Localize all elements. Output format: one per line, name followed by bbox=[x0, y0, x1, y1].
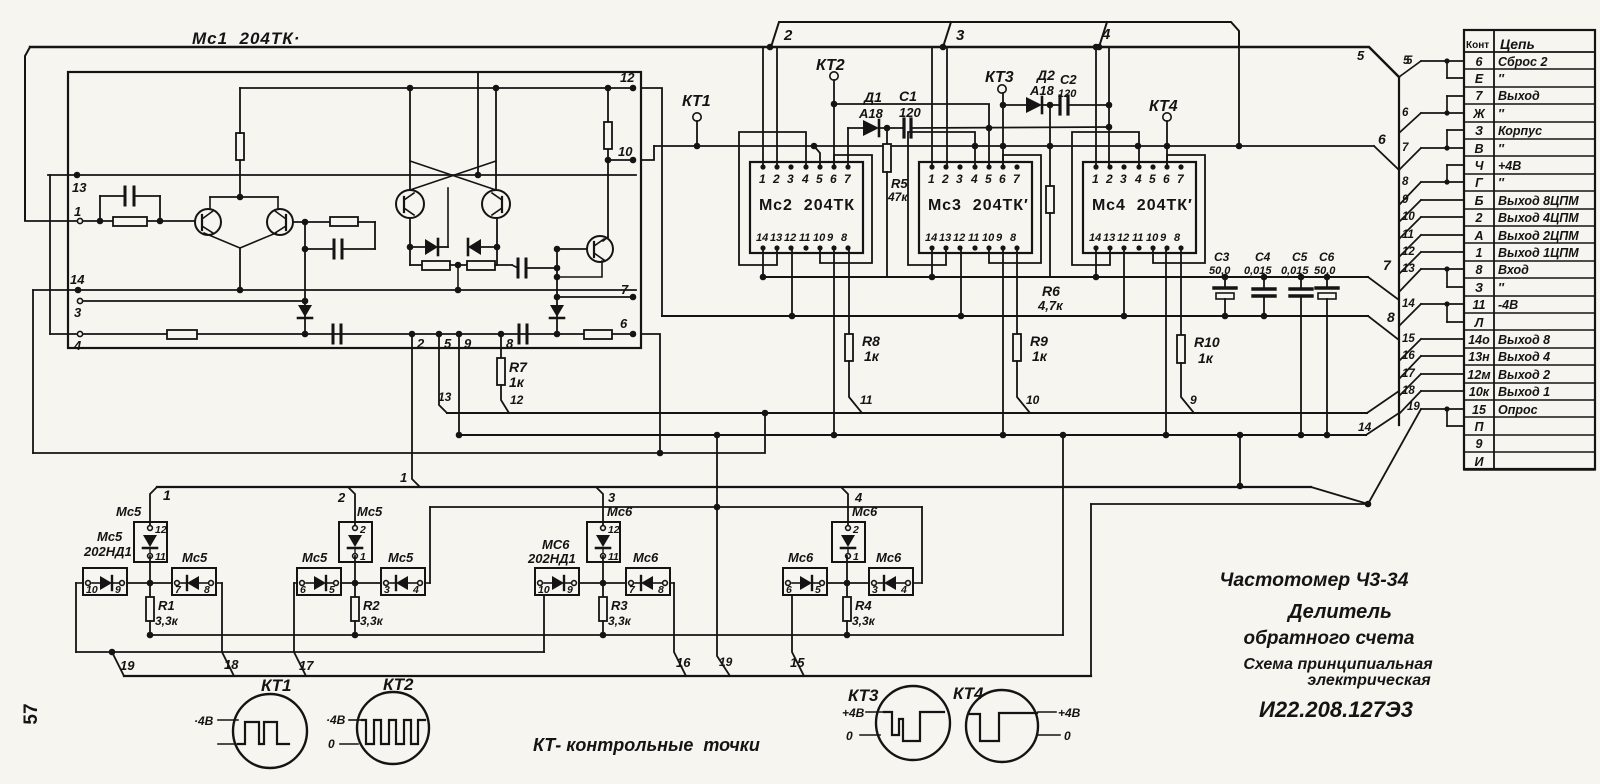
wire L1 left to rail B bbox=[76, 582, 83, 584]
connector row Г &#8243; bbox=[1464, 190, 1595, 192]
connector row 12м Выход 2 bbox=[1464, 382, 1595, 384]
connector row 6 Сброс 2 bbox=[1464, 68, 1595, 70]
connector row 11 -4В bbox=[1464, 312, 1595, 314]
svg-text:0: 0 bbox=[328, 737, 335, 751]
wire rail R y635 bbox=[150, 634, 1063, 636]
svg-text:7: 7 bbox=[1402, 142, 1409, 154]
svg-text:КТ1: КТ1 bbox=[682, 93, 711, 110]
connector row 2 Выход 4ЦПМ bbox=[1464, 225, 1595, 227]
svg-text:R7: R7 bbox=[509, 359, 528, 375]
svg-text:Ч: Ч bbox=[1475, 159, 1485, 173]
svg-text:Ж: Ж bbox=[1472, 107, 1486, 121]
wire tap 11 to row bbox=[1399, 235, 1421, 257]
svg-text:47к: 47к bbox=[887, 190, 908, 204]
Мс2 pin 10 bbox=[817, 245, 822, 250]
IC Mc1 outline box bbox=[68, 72, 641, 348]
wire lower bus1 net1 bbox=[157, 486, 1311, 488]
resistor R3 bbox=[602, 583, 604, 597]
wire bundle trunk vertical bbox=[1398, 77, 1400, 425]
svg-text:1: 1 bbox=[163, 487, 171, 503]
svg-text:3: 3 bbox=[956, 27, 965, 44]
wire vertical H1 to Mc4 pin1 bbox=[1095, 47, 1097, 167]
connector table frame bbox=[1464, 30, 1595, 469]
svg-text:Мс6: Мс6 bbox=[788, 550, 814, 565]
svg-text:3: 3 bbox=[74, 305, 82, 320]
svg-text:4: 4 bbox=[900, 584, 907, 596]
svg-text:+4В: +4В bbox=[1498, 159, 1521, 173]
svg-text:обратного счета: обратного счета bbox=[1243, 628, 1414, 649]
Мс3 pin 10 bbox=[986, 245, 991, 250]
wire tap 6 hook bbox=[1444, 110, 1449, 115]
svg-text:11: 11 bbox=[968, 232, 979, 244]
node pin5 bottom bbox=[436, 331, 443, 338]
svg-text:3: 3 bbox=[384, 584, 390, 596]
IC Мс2 body bbox=[750, 162, 863, 253]
wire left vertical x33 bbox=[32, 290, 34, 453]
svg-text:2: 2 bbox=[852, 524, 859, 536]
wire column C diode to row bbox=[602, 556, 604, 583]
wire T5 emitter down bbox=[496, 218, 498, 265]
Мс4 pin 14 bbox=[1093, 245, 1098, 250]
svg-text:6: 6 bbox=[1378, 131, 1386, 147]
svg-text:12: 12 bbox=[155, 524, 167, 536]
svg-text:15: 15 bbox=[790, 655, 805, 670]
svg-text:Мс6: Мс6 bbox=[607, 504, 633, 519]
svg-text:1: 1 bbox=[759, 172, 766, 186]
wire ground dive to Mc2 pin5 bbox=[814, 146, 820, 167]
svg-text:18: 18 bbox=[224, 657, 239, 672]
Мс4 pin 2 bbox=[1107, 164, 1112, 169]
svg-text:Мс4 204ТК′: Мс4 204ТК′ bbox=[1092, 197, 1193, 214]
svg-text:1к: 1к bbox=[1198, 350, 1214, 366]
svg-text:1: 1 bbox=[928, 172, 935, 186]
connector row З Корпус bbox=[1464, 138, 1595, 140]
svg-text:9: 9 bbox=[1402, 194, 1409, 206]
svg-text:2: 2 bbox=[941, 172, 949, 186]
svg-text:4: 4 bbox=[854, 490, 863, 505]
wire Mc3 pin12 to bus2 bbox=[960, 248, 962, 316]
svg-text:″: ″ bbox=[1498, 107, 1505, 121]
resistor Rg bbox=[467, 261, 495, 270]
wire tap 14 hook bbox=[1444, 301, 1449, 306]
Мс4 pin 6 bbox=[1164, 164, 1169, 169]
svg-text:11: 11 bbox=[1132, 232, 1143, 244]
svg-text:6: 6 bbox=[1402, 107, 1409, 119]
wire left drop from H1 to pin1 line bbox=[25, 47, 30, 220]
wire left vertical x50 pin13 to pin4 bbox=[49, 175, 51, 334]
wire tap 8 hook bbox=[1444, 179, 1449, 184]
svg-text:11: 11 bbox=[1473, 298, 1486, 312]
wire tap 10 to row bbox=[1399, 217, 1421, 239]
svg-text:5: 5 bbox=[444, 336, 452, 351]
diode box Mc column x848 bbox=[832, 522, 865, 562]
svg-text:9: 9 bbox=[827, 232, 834, 244]
svg-text:R4: R4 bbox=[855, 598, 872, 613]
wire dive 19 left bbox=[112, 652, 124, 676]
diode array box pins 3 4 bbox=[869, 568, 913, 595]
svg-text:1к: 1к bbox=[1032, 348, 1048, 364]
resistor R2 bbox=[354, 583, 356, 597]
connector row 9 bbox=[1464, 451, 1595, 453]
wire Mc3 pin9 to bus4 bbox=[1002, 248, 1004, 435]
svg-text:Л: Л bbox=[1474, 316, 1484, 330]
diode array box pins 6 5 bbox=[297, 568, 341, 595]
svg-text:3: 3 bbox=[787, 172, 794, 186]
svg-text:4: 4 bbox=[801, 172, 809, 186]
wire lower bus1 hook to column B bbox=[348, 487, 355, 528]
svg-text:Мс5: Мс5 bbox=[182, 550, 208, 565]
IC Мс3 body bbox=[919, 162, 1032, 253]
svg-text:14: 14 bbox=[925, 232, 937, 244]
svg-text:2: 2 bbox=[337, 490, 346, 505]
svg-text:10: 10 bbox=[538, 584, 550, 596]
wire T3 emitter to x557 bbox=[557, 261, 602, 277]
svg-text:С3: С3 bbox=[1214, 250, 1230, 264]
svg-text:0,015: 0,015 bbox=[1281, 265, 1309, 277]
Мс2 pin 5 bbox=[817, 164, 822, 169]
svg-text:8: 8 bbox=[1402, 176, 1409, 188]
wire top bus H1 bbox=[30, 47, 1399, 77]
wire pin3 line L3 bbox=[80, 300, 305, 302]
wire Mc1 pin12 to bus2 bbox=[641, 88, 662, 316]
Мс4 pin 1 bbox=[1093, 164, 1098, 169]
wire bus3 y413 bundle bbox=[447, 412, 1367, 414]
diode array box pins 6 5 bbox=[783, 568, 827, 595]
svg-text:10: 10 bbox=[86, 584, 98, 596]
svg-text:1к: 1к bbox=[864, 348, 880, 364]
svg-text:12м: 12м bbox=[1467, 368, 1490, 382]
wire pin4 line L4 bbox=[50, 333, 633, 335]
svg-text:16: 16 bbox=[676, 655, 691, 670]
Мс3 shield loop left pin13-pin4 bbox=[908, 132, 975, 265]
svg-text:5: 5 bbox=[816, 172, 823, 186]
wire lower bus1 hook to column D bbox=[841, 487, 848, 528]
node pin2 bottom bbox=[409, 331, 416, 338]
svg-text:КТ1: КТ1 bbox=[261, 676, 292, 695]
svg-text:11: 11 bbox=[608, 551, 619, 563]
wire Mc1 pin5 down to bus3 bbox=[439, 334, 447, 413]
wire T4 supply bbox=[409, 88, 411, 190]
svg-text:202НД1: 202НД1 bbox=[83, 544, 132, 559]
svg-text:А: А bbox=[1473, 229, 1483, 243]
wire vertical H1 to Mc3 pin2 bbox=[946, 47, 948, 167]
wire vertical H1 to Mc4 pin2 bbox=[1108, 47, 1110, 167]
svg-text:0: 0 bbox=[846, 729, 853, 743]
svg-text:14: 14 bbox=[1402, 298, 1415, 310]
wire ground line y146 bbox=[654, 145, 1374, 147]
svg-text:9: 9 bbox=[464, 336, 472, 351]
svg-text:R6: R6 bbox=[1042, 283, 1060, 299]
wire pin1 line L1 bbox=[25, 220, 195, 222]
wire dive 15 bbox=[792, 595, 804, 676]
wire tap 12 to row bbox=[1399, 252, 1421, 274]
svg-text:6: 6 bbox=[300, 584, 306, 596]
wire Mc4 pin4 dive bbox=[1135, 143, 1142, 150]
svg-text:5: 5 bbox=[815, 584, 821, 596]
wire Mc2 pin14 to bus1 bbox=[762, 248, 764, 277]
svg-text:4: 4 bbox=[412, 584, 419, 596]
wire bundle rail C y676 bbox=[124, 675, 1091, 677]
wire x458 down to L14 bbox=[457, 265, 459, 290]
svg-text:8: 8 bbox=[658, 584, 664, 596]
svg-text:15: 15 bbox=[1472, 403, 1487, 417]
wire T5 supply bbox=[495, 88, 497, 190]
Мс2 pin 11 bbox=[803, 245, 808, 250]
svg-text:12: 12 bbox=[620, 70, 635, 85]
svg-text:″: ″ bbox=[1498, 142, 1505, 156]
wire hook 4 bbox=[1099, 22, 1107, 47]
resistor R9 on Mc3 pin8 bbox=[1016, 248, 1018, 334]
Мс4 pin 11 bbox=[1136, 245, 1141, 250]
svg-text:4: 4 bbox=[73, 338, 82, 353]
wire Mc3 pin5 drop bbox=[988, 128, 990, 167]
svg-text:R10: R10 bbox=[1194, 334, 1220, 350]
svg-text:6: 6 bbox=[620, 316, 628, 331]
svg-text:Мс6: Мс6 bbox=[852, 504, 878, 519]
Мс2 shield loop right pin10-pin6 bbox=[820, 155, 872, 263]
svg-text:8: 8 bbox=[204, 584, 210, 596]
wire pin7 inside bbox=[557, 296, 633, 298]
svg-text:Делитель: Делитель bbox=[1286, 601, 1392, 623]
diode array box pins 10 9 bbox=[535, 568, 579, 595]
transistor T4 bbox=[396, 190, 424, 218]
wire input line y453 bbox=[33, 413, 765, 453]
wire Mc1 pin10 to ground line bbox=[641, 146, 654, 160]
svg-text:13: 13 bbox=[438, 390, 452, 404]
wire branch x1240 bbox=[1239, 435, 1241, 486]
svg-text:Выход 1ЦПМ: Выход 1ЦПМ bbox=[1498, 246, 1579, 260]
connector row И bbox=[1464, 469, 1595, 471]
diode Ddb down bbox=[550, 305, 564, 317]
svg-text:Г: Г bbox=[1475, 176, 1484, 190]
svg-text:15: 15 bbox=[1402, 333, 1415, 345]
wire vertical H1 to Mc3 pin1 bbox=[931, 47, 933, 167]
wire D2 line y105 bbox=[1003, 104, 1026, 106]
svg-text:Мс5: Мс5 bbox=[97, 529, 123, 544]
svg-text:+4В: +4В bbox=[1058, 706, 1081, 720]
wire tap 16 to row bbox=[1399, 356, 1421, 379]
svg-text:КТ4: КТ4 bbox=[953, 684, 984, 703]
wire bus2 y316 bbox=[662, 315, 1368, 317]
connector row 8 Вход bbox=[1464, 277, 1595, 279]
wire P2 right up to bus2 bbox=[913, 582, 922, 584]
svg-text:″: ″ bbox=[1498, 281, 1505, 295]
wire pin13 line L13 bbox=[48, 174, 636, 176]
svg-text:П: П bbox=[1475, 420, 1485, 434]
svg-text:11: 11 bbox=[1402, 229, 1414, 241]
connector row П bbox=[1464, 434, 1595, 436]
svg-text:Мс5: Мс5 bbox=[357, 504, 383, 519]
wire tap 15 to row bbox=[1399, 339, 1421, 361]
wire ground feed diagonal to trunk bbox=[1374, 146, 1399, 170]
svg-text:11: 11 bbox=[799, 232, 810, 244]
connector row 14о Выход 8 bbox=[1464, 347, 1595, 349]
svg-text:9: 9 bbox=[1160, 232, 1167, 244]
svg-text:5: 5 bbox=[1403, 55, 1410, 67]
wire lower bus y504 to tap19 bbox=[1091, 503, 1368, 505]
connector row 13н Выход 4 bbox=[1464, 364, 1595, 366]
wire tap 9 to row bbox=[1399, 200, 1421, 222]
svg-text:7: 7 bbox=[621, 282, 629, 297]
svg-text:Частотомер Ч3-34: Частотомер Ч3-34 bbox=[1220, 569, 1409, 591]
svg-text:8: 8 bbox=[1476, 263, 1483, 277]
node hook 2 bbox=[767, 44, 774, 51]
resistor R4 bbox=[846, 583, 848, 597]
wire dive 17 bbox=[294, 583, 306, 676]
svg-text:9: 9 bbox=[115, 584, 121, 596]
svg-text:R3: R3 bbox=[611, 598, 628, 613]
connector row 15 Опрос bbox=[1464, 416, 1595, 418]
Мс3 shield loop right pin10-pin6 bbox=[989, 155, 1041, 263]
svg-text:14: 14 bbox=[1089, 232, 1101, 244]
waveform KT1 bbox=[238, 722, 289, 744]
svg-text:·4В: ·4В bbox=[194, 714, 214, 728]
svg-text:3,3к: 3,3к bbox=[852, 614, 876, 628]
wire bus1 y277 +4V bbox=[763, 276, 1368, 278]
svg-text:Выход 2: Выход 2 bbox=[1498, 368, 1550, 382]
svg-text:14: 14 bbox=[1358, 420, 1372, 434]
Мс4 shield loop right pin10-pin6 bbox=[1153, 155, 1205, 263]
wire tap 19 steep from lower bundle bbox=[1368, 409, 1421, 504]
svg-text:10: 10 bbox=[1146, 232, 1159, 244]
wire tap 6 to row bbox=[1399, 113, 1421, 133]
capacitor Cb coupling bbox=[374, 222, 376, 249]
svg-text:″: ″ bbox=[1498, 72, 1505, 86]
node pin9 bottom bbox=[456, 331, 463, 338]
svg-text:Мс5: Мс5 bbox=[388, 550, 414, 565]
svg-text:8: 8 bbox=[506, 336, 514, 351]
connector row 1 Выход 1ЦПМ bbox=[1464, 260, 1595, 262]
svg-text:КТ3: КТ3 bbox=[985, 69, 1014, 86]
wire branch x717 to lower rail bbox=[717, 435, 730, 676]
svg-text:18: 18 bbox=[1402, 385, 1415, 397]
Мс3 pin 8 bbox=[1014, 245, 1019, 250]
Мс2 pin 9 bbox=[831, 245, 836, 250]
svg-text:19: 19 bbox=[120, 658, 135, 673]
svg-text:КТ2: КТ2 bbox=[383, 675, 414, 694]
svg-text:13: 13 bbox=[1103, 232, 1115, 244]
svg-text:9: 9 bbox=[567, 584, 573, 596]
svg-text:Д2: Д2 bbox=[1036, 67, 1055, 83]
connector row 10к Выход 1 bbox=[1464, 399, 1595, 401]
wire tap 7 hook bbox=[1444, 145, 1449, 150]
svg-text:3,3к: 3,3к bbox=[608, 614, 632, 628]
wire tap 17 to row bbox=[1399, 374, 1421, 396]
waveform KT2 bbox=[362, 720, 425, 744]
Мс3 pin 14 bbox=[929, 245, 934, 250]
svg-text:2: 2 bbox=[1475, 211, 1483, 225]
svg-text:7: 7 bbox=[1383, 257, 1392, 273]
connector row Ж &#8243; bbox=[1464, 121, 1595, 123]
svg-text:11: 11 bbox=[860, 393, 873, 407]
svg-text:+4В: +4В bbox=[842, 706, 865, 720]
wire vertical H1 to Mc2 pin2 bbox=[776, 47, 778, 167]
svg-text:11: 11 bbox=[155, 551, 166, 563]
svg-text:1: 1 bbox=[1476, 246, 1483, 260]
svg-text:0: 0 bbox=[1064, 729, 1071, 743]
svg-text:Мс6: Мс6 bbox=[876, 550, 902, 565]
Мс4 pin 4 bbox=[1136, 164, 1141, 169]
Мс3 pin 5 bbox=[986, 164, 991, 169]
svg-text:5: 5 bbox=[329, 584, 335, 596]
svg-text:13: 13 bbox=[939, 232, 951, 244]
wire upper bus B (nets 2-3-4) bbox=[771, 22, 1239, 47]
wire L2 right down bbox=[216, 582, 222, 584]
svg-text:10: 10 bbox=[982, 232, 995, 244]
wire P1 to R4 node bbox=[827, 582, 869, 584]
svg-text:1: 1 bbox=[74, 204, 81, 219]
capacitor Ca bypass on pin1 bbox=[100, 195, 125, 197]
diode box Mc column x355 bbox=[339, 522, 372, 562]
wire rail B y652 bbox=[76, 651, 544, 653]
svg-text:12: 12 bbox=[1117, 232, 1129, 244]
svg-text:9: 9 bbox=[1476, 437, 1483, 451]
Мс3 pin 13 bbox=[943, 245, 948, 250]
resistor R5 bbox=[886, 128, 888, 144]
svg-text:4: 4 bbox=[1101, 26, 1111, 43]
svg-text:КТ2: КТ2 bbox=[816, 57, 845, 74]
wire T1 T2 emitters merge bbox=[204, 233, 276, 248]
wire lower bus1 left hook to column A bbox=[150, 487, 157, 528]
wire hook 3 bbox=[943, 22, 951, 47]
svg-text:16: 16 bbox=[1402, 350, 1415, 362]
svg-text:R5: R5 bbox=[891, 176, 908, 191]
svg-text:8: 8 bbox=[1174, 232, 1181, 244]
diode array box pins 3 4 bbox=[381, 568, 425, 595]
svg-text:Цепь: Цепь bbox=[1500, 36, 1535, 52]
svg-text:Выход: Выход bbox=[1498, 89, 1540, 103]
Мс3 pin 6 bbox=[1000, 164, 1005, 169]
connector row Б Выход 8ЦПМ bbox=[1464, 208, 1595, 210]
wire KT2 line y104 bbox=[834, 104, 989, 128]
capacitor Cd on L4 bbox=[518, 325, 521, 343]
wire tap 18 to row bbox=[1399, 391, 1421, 414]
svg-text:14: 14 bbox=[70, 272, 85, 287]
svg-text:17: 17 bbox=[1402, 368, 1415, 380]
svg-text:6: 6 bbox=[786, 584, 792, 596]
wire T2 output to resistor Rc bbox=[293, 221, 330, 223]
waveform KT3 bbox=[884, 712, 944, 741]
wire N2 right down dive bbox=[670, 582, 674, 584]
wire tap 7 to row bbox=[1399, 148, 1421, 170]
transistor T5 bbox=[482, 190, 510, 218]
svg-text:Мс6: Мс6 bbox=[633, 550, 659, 565]
diode Dgb left bbox=[468, 239, 481, 255]
svg-text:Выход 4ЦПМ: Выход 4ЦПМ bbox=[1498, 211, 1579, 225]
wire internal top rail L3b to pin12 bbox=[240, 87, 633, 89]
Мс3 pin 11 bbox=[972, 245, 977, 250]
Мс3 pin 2 bbox=[943, 164, 948, 169]
svg-text:7: 7 bbox=[1476, 89, 1484, 103]
svg-text:13н: 13н bbox=[1468, 350, 1490, 364]
Мс3 pin 12 bbox=[957, 245, 962, 250]
Мс2 pin 8 bbox=[845, 245, 850, 250]
wire dive 16 bbox=[674, 583, 686, 676]
resistor Rd on L4 bbox=[167, 330, 197, 339]
svg-text:14о: 14о bbox=[1468, 333, 1490, 347]
svg-text:КТ- контрольные точки: КТ- контрольные точки bbox=[533, 735, 760, 755]
svg-text:R9: R9 bbox=[1030, 333, 1048, 349]
resistor R7 bbox=[500, 334, 502, 358]
wire column C rail drop bbox=[543, 595, 545, 652]
svg-text:С1: С1 bbox=[899, 88, 917, 104]
svg-text:R1: R1 bbox=[158, 598, 175, 613]
connector row Л bbox=[1464, 329, 1595, 331]
wire tap 8 to row bbox=[1399, 182, 1421, 205]
svg-text:13: 13 bbox=[72, 180, 87, 195]
wire vertical x557 node bbox=[556, 249, 558, 334]
svg-text:Выход 1: Выход 1 bbox=[1498, 385, 1550, 399]
